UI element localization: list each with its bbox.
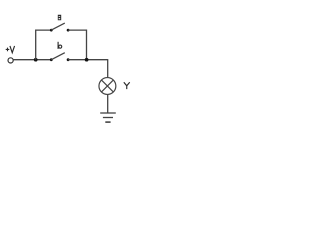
lamp Y	[99, 78, 116, 95]
wire lamp to ground	[107, 94, 109, 113]
node junction right	[85, 58, 89, 62]
wire switch b output to lamp corner	[68, 59, 108, 61]
wire +V terminal to switch b left contact	[13, 59, 51, 61]
wire switch a output to right rail	[68, 30, 86, 60]
node +V label	[6, 46, 15, 53]
wire left rail up to switch a row	[36, 30, 52, 60]
switch a	[50, 23, 70, 31]
+V terminal	[8, 58, 13, 63]
switch b	[50, 53, 70, 61]
ground	[100, 113, 116, 122]
wire down to lamp	[107, 59, 109, 77]
node junction left	[34, 58, 38, 62]
label Y	[124, 82, 130, 89]
label b	[58, 42, 62, 49]
label a	[58, 15, 61, 20]
